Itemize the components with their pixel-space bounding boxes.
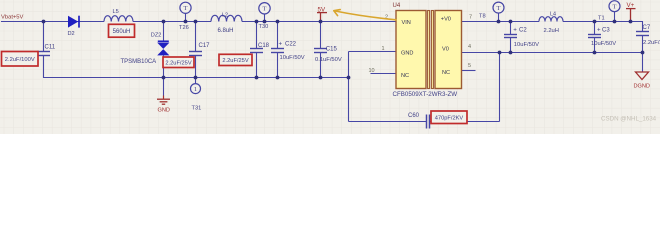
svg-text:T1: T1 bbox=[598, 15, 605, 21]
svg-text:GND: GND bbox=[158, 108, 170, 114]
svg-text:T30: T30 bbox=[259, 24, 269, 30]
svg-text:T8: T8 bbox=[479, 14, 486, 20]
svg-text:NC: NC bbox=[401, 73, 409, 79]
svg-text:C2: C2 bbox=[519, 28, 527, 34]
svg-text:+: + bbox=[279, 40, 283, 47]
svg-text:2.2uF/25V: 2.2uF/25V bbox=[222, 58, 248, 64]
svg-text:7: 7 bbox=[469, 14, 472, 20]
svg-text:C7: C7 bbox=[643, 25, 651, 31]
svg-text:C60: C60 bbox=[408, 113, 420, 119]
svg-text:C17: C17 bbox=[199, 43, 211, 49]
svg-text:470pF/2KV: 470pF/2KV bbox=[435, 115, 464, 121]
svg-text:T: T bbox=[497, 5, 501, 12]
svg-text:1: 1 bbox=[382, 46, 385, 52]
svg-text:10uF/50V: 10uF/50V bbox=[280, 55, 305, 61]
svg-text:L2: L2 bbox=[222, 13, 228, 19]
svg-text:T26: T26 bbox=[179, 25, 189, 31]
svg-text:10uF/50V: 10uF/50V bbox=[591, 41, 616, 47]
svg-text:DZ2: DZ2 bbox=[151, 33, 162, 39]
svg-text:T: T bbox=[613, 4, 617, 11]
svg-text:0.1uF/50V: 0.1uF/50V bbox=[315, 57, 342, 63]
svg-text:560uH: 560uH bbox=[113, 29, 131, 35]
svg-text:V0: V0 bbox=[442, 47, 449, 53]
svg-text:6.8uH: 6.8uH bbox=[218, 28, 234, 34]
svg-text:2.2uF/100V: 2.2uF/100V bbox=[5, 57, 35, 63]
svg-text:V+: V+ bbox=[627, 2, 635, 9]
svg-text:10: 10 bbox=[369, 68, 375, 74]
svg-text:NC: NC bbox=[442, 70, 450, 76]
svg-text:Vbat+5V: Vbat+5V bbox=[1, 15, 24, 21]
svg-text:C3: C3 bbox=[602, 28, 610, 34]
svg-text:C11: C11 bbox=[45, 45, 56, 51]
svg-text:DGND: DGND bbox=[634, 84, 650, 90]
svg-text:L5: L5 bbox=[113, 9, 119, 15]
svg-text:VIN: VIN bbox=[402, 20, 411, 26]
svg-text:2.2uF/2: 2.2uF/2 bbox=[643, 40, 660, 46]
svg-text:2.2uF/25V: 2.2uF/25V bbox=[165, 60, 191, 66]
svg-text:CSDN @NHL_1634: CSDN @NHL_1634 bbox=[601, 116, 657, 123]
svg-text:10uF/50V: 10uF/50V bbox=[514, 42, 539, 48]
svg-text:4: 4 bbox=[468, 44, 471, 50]
svg-text:+V0: +V0 bbox=[441, 17, 451, 23]
svg-text:C22: C22 bbox=[285, 42, 297, 48]
svg-text:+: + bbox=[597, 26, 601, 33]
svg-text:T: T bbox=[263, 6, 267, 13]
svg-text:+: + bbox=[513, 26, 517, 33]
svg-text:GND: GND bbox=[401, 51, 413, 57]
svg-text:1: 1 bbox=[194, 86, 197, 93]
svg-text:L4: L4 bbox=[550, 12, 556, 18]
svg-text:2.2uH: 2.2uH bbox=[544, 28, 559, 34]
svg-text:TPSMB10CA: TPSMB10CA bbox=[121, 59, 157, 65]
svg-text:U4: U4 bbox=[393, 3, 401, 9]
svg-text:C18: C18 bbox=[258, 43, 270, 49]
svg-text:CFB0509XT-2WR3-ZW: CFB0509XT-2WR3-ZW bbox=[393, 91, 458, 98]
svg-text:5: 5 bbox=[468, 63, 471, 69]
svg-text:T: T bbox=[184, 5, 188, 12]
svg-text:D2: D2 bbox=[68, 31, 75, 37]
svg-text:T31: T31 bbox=[192, 105, 202, 111]
svg-text:C15: C15 bbox=[326, 47, 338, 53]
